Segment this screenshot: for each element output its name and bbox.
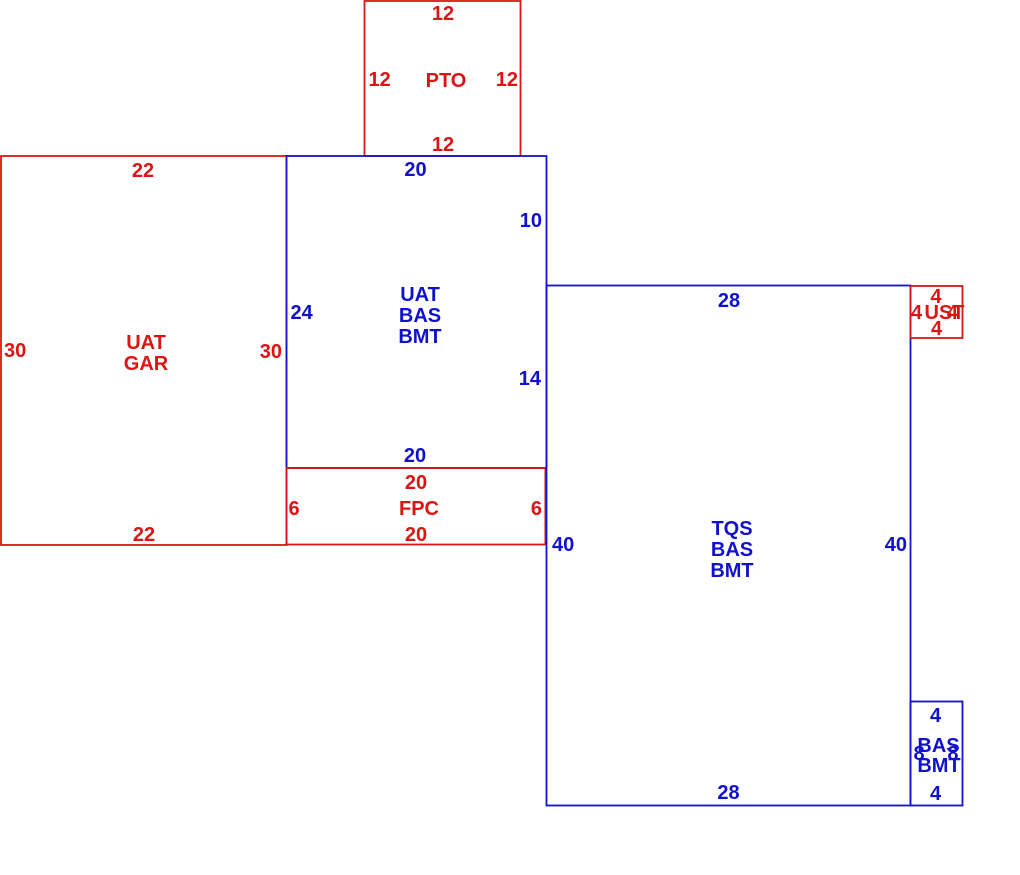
svg-text:BMT: BMT [710, 560, 753, 582]
room UAT BAS BMT outline [287, 156, 547, 468]
svg-text:BMT: BMT [398, 326, 441, 348]
svg-text:12: 12 [432, 134, 454, 156]
room TQS BAS BMT outline [547, 286, 911, 806]
svg-text:4: 4 [930, 705, 942, 727]
svg-text:BAS: BAS [711, 539, 753, 561]
svg-text:8: 8 [947, 743, 958, 765]
svg-text:20: 20 [405, 472, 427, 494]
svg-text:BAS: BAS [399, 305, 441, 327]
svg-text:TQS: TQS [711, 518, 752, 540]
svg-text:FPC: FPC [399, 498, 439, 520]
svg-text:PTO: PTO [426, 70, 467, 92]
svg-text:4: 4 [947, 302, 959, 324]
svg-text:20: 20 [404, 159, 426, 181]
svg-text:10: 10 [520, 210, 542, 232]
svg-text:UAT: UAT [126, 332, 166, 354]
svg-text:20: 20 [404, 445, 426, 467]
svg-text:28: 28 [718, 290, 740, 312]
svg-text:22: 22 [132, 160, 154, 182]
room PTO outline [365, 1, 521, 156]
svg-text:UAT: UAT [400, 284, 440, 306]
svg-text:28: 28 [717, 782, 739, 804]
svg-text:40: 40 [552, 534, 574, 556]
svg-text:4: 4 [911, 302, 923, 324]
room UST outline [911, 286, 963, 338]
svg-text:20: 20 [405, 524, 427, 546]
svg-text:40: 40 [885, 534, 907, 556]
svg-text:12: 12 [496, 69, 518, 91]
svg-text:30: 30 [260, 341, 282, 363]
room UAT GAR outline [1, 156, 287, 545]
svg-text:12: 12 [432, 3, 454, 25]
room FPC outline [287, 468, 546, 545]
svg-text:14: 14 [519, 368, 542, 390]
svg-text:6: 6 [531, 498, 542, 520]
svg-text:6: 6 [289, 498, 300, 520]
svg-text:22: 22 [133, 524, 155, 546]
svg-text:30: 30 [4, 340, 26, 362]
room BAS BMT (small) outline [911, 702, 963, 806]
svg-text:4: 4 [930, 783, 942, 805]
svg-text:24: 24 [291, 302, 314, 324]
svg-text:GAR: GAR [124, 353, 169, 375]
svg-text:12: 12 [369, 69, 391, 91]
svg-text:4: 4 [931, 318, 943, 340]
